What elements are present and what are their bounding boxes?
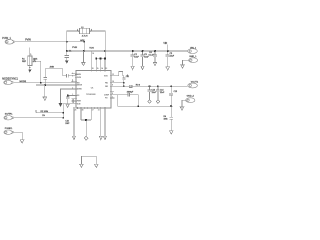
ground arrow left of net tie: [80, 164, 84, 167]
IC pin ticks left: [75, 73, 77, 104]
svg-text:C15: C15: [174, 91, 177, 93]
wire C12 left: [118, 94, 128, 96]
node PGND pair: [85, 119, 87, 121]
wire x63.3 riser: [62, 104, 64, 118]
svg-text:21: 21: [75, 110, 77, 112]
IC pin ticks top: [91, 70, 105, 72]
connector J5: [188, 49, 198, 54]
svg-text:PGND1: PGND1: [5, 128, 13, 130]
ground under C4: [153, 62, 156, 65]
wire PGND pair: [81, 108, 91, 120]
tick hop: [127, 75, 129, 77]
wire R1 tap to EN: [32, 61, 41, 82]
svg-text:MODE/SYNC1: MODE/SYNC1: [2, 78, 18, 81]
node FB1: [123, 82, 125, 84]
IC U1: [76, 71, 111, 109]
capacitor C3: [141, 51, 145, 66]
ground under C9: [66, 104, 69, 107]
wire VOS pin to bus: [90, 51, 92, 71]
svg-text:VOS: VOS: [89, 47, 94, 49]
node SS: [44, 84, 46, 86]
svg-text:AVIN: AVIN: [77, 73, 82, 76]
connector J3: [4, 116, 14, 120]
capacitor C9: [66, 96, 70, 105]
ground under J4: [20, 140, 24, 143]
wire pin y101 stub: [72, 100, 77, 102]
svg-text:R2 100k: R2 100k: [41, 111, 48, 113]
svg-text:MODE: MODE: [77, 85, 83, 87]
connector J2: [4, 80, 14, 84]
wire PGND pair down: [85, 120, 87, 136]
capacitor C1: [65, 51, 70, 60]
ground under x100.8: [99, 136, 102, 139]
wire pin AGND to ground: [61, 89, 77, 103]
svg-text:5: 5: [72, 73, 73, 75]
capacitor C7 on SS riser: [44, 78, 47, 86]
svg-text:22uF: 22uF: [170, 55, 175, 57]
svg-text:3: 3: [72, 81, 73, 83]
svg-text:0.1uF: 0.1uF: [149, 55, 155, 57]
svg-text:16: 16: [92, 53, 94, 55]
svg-text:COMP: COMP: [104, 94, 110, 96]
pad SW1: [95, 58, 97, 60]
wire SS to ground: [44, 85, 46, 97]
node FB junction: [170, 105, 172, 107]
svg-text:PVIN: PVIN: [77, 77, 82, 79]
ground arrow right of net tie: [95, 164, 99, 167]
svg-text:GND_1: GND_1: [189, 56, 197, 58]
ground under x86.1: [84, 136, 88, 140]
capacitor C15 feedforward: [169, 86, 173, 106]
wire C8 to IC: [68, 75, 76, 77]
wire J8 to ground: [182, 100, 187, 107]
svg-text:SS: SS: [77, 95, 80, 97]
svg-text:13: 13: [105, 68, 107, 70]
node VOUT feedback: [170, 85, 172, 87]
capacitor C12 series: [128, 93, 130, 97]
wire bus VIN: [67, 50, 188, 52]
ground under R4: [169, 131, 173, 134]
wire VOUT line: [111, 85, 187, 87]
node bus C3: [142, 50, 144, 52]
wire pin stub right y91.2: [111, 90, 114, 92]
svg-text:FB1: FB1: [105, 82, 108, 84]
pin names right: [104, 75, 110, 99]
ground under C13: [148, 100, 151, 104]
svg-text:VIN: VIN: [163, 43, 167, 45]
svg-text:16: 16: [82, 110, 84, 112]
wire PGND1 down: [73, 108, 75, 136]
wire SS bridge: [45, 69, 62, 78]
capacitor C8 series: [67, 74, 69, 78]
connector J6: [189, 58, 198, 63]
net stub VIN flag: [167, 44, 169, 51]
IC pin ticks bottom: [74, 107, 105, 109]
wire pin stub y98.8: [72, 98, 77, 100]
capacitor C11: [122, 76, 125, 83]
pin numbers right: [112, 74, 114, 98]
wire VIN up to L1: [67, 31, 80, 51]
svg-text:REF: REF: [22, 61, 27, 63]
ground under x105: [103, 136, 106, 139]
node x138.2: [137, 105, 139, 107]
node SW rail junction: [104, 50, 106, 52]
svg-text:100k: 100k: [164, 118, 168, 120]
capacitor C2: [131, 51, 135, 66]
svg-text:1: 1: [77, 29, 78, 31]
svg-text:2: 2: [72, 87, 73, 89]
svg-text:19: 19: [72, 102, 74, 104]
capacitor C4: [153, 51, 157, 62]
wire COMP riser: [117, 95, 119, 107]
resistor R1: [28, 48, 32, 70]
wire L1 to SW: [90, 31, 106, 59]
svg-text:MODE: MODE: [20, 81, 27, 83]
svg-text:10uF: 10uF: [144, 57, 149, 59]
capacitor C14: [156, 86, 160, 99]
wire J4 to ground: [14, 132, 22, 139]
svg-text:ILIM: ILIM: [77, 103, 81, 105]
ground under x83.4: [82, 62, 86, 65]
svg-text:14: 14: [101, 68, 103, 70]
capacitor C5 polarized: [166, 51, 170, 67]
svg-text:VOS: VOS: [104, 75, 108, 77]
wire COMP bottom line: [118, 105, 172, 107]
inductor L1: [78, 28, 90, 34]
svg-text:1%: 1%: [42, 115, 45, 117]
node VOUT C13: [149, 85, 151, 87]
svg-text:2: 2: [34, 60, 35, 62]
wire EN/MODE line: [13, 82, 76, 84]
connector J4: [4, 130, 14, 134]
wire C12 right: [130, 95, 139, 107]
wire pin stub y73.1: [72, 72, 77, 74]
wire SW pins row: [96, 59, 105, 71]
connector J7: [188, 83, 198, 88]
svg-text:SS/TR1: SS/TR1: [5, 113, 13, 115]
svg-text:6: 6: [72, 76, 73, 78]
wire pin y95.5: [68, 95, 76, 97]
svg-text:10uF: 10uF: [134, 57, 139, 59]
svg-text:22uF: 22uF: [152, 92, 157, 94]
wire FB1: [111, 82, 124, 84]
wire COMP: [111, 94, 118, 96]
resistor R3 series: [129, 85, 132, 87]
connector J1: [5, 40, 15, 45]
svg-text:AGND: AGND: [77, 88, 83, 91]
svg-text:GND_2: GND_2: [187, 95, 195, 97]
node AVIN dot: [83, 41, 85, 43]
wire J3 line: [14, 117, 64, 119]
wire pin stub y81.2: [71, 80, 76, 82]
wire stub to PGND arrow: [82, 51, 84, 62]
svg-text:TPS61088: TPS61088: [86, 94, 96, 96]
svg-text:17: 17: [92, 110, 94, 112]
node bus C5: [167, 50, 169, 52]
ground under x60.5: [59, 103, 63, 107]
wire SS line: [36, 84, 76, 86]
wire bottom net tie: [81, 156, 96, 164]
ground under C5: [166, 67, 170, 70]
pin numbers bottom: [75, 110, 100, 112]
svg-text:PVIN: PVIN: [72, 47, 77, 49]
node VOUT C14: [157, 85, 159, 87]
node x63.3 y112.6: [63, 112, 65, 114]
svg-text:PVIN: PVIN: [25, 39, 31, 42]
wire FB resistor line: [36, 110, 63, 113]
ground under x74: [72, 136, 75, 139]
svg-text:C11: C11: [126, 76, 129, 78]
wire VOS hop: [111, 72, 124, 76]
pin numbers top: [92, 68, 107, 70]
ground under J8: [180, 107, 184, 110]
ground under C1: [65, 60, 69, 63]
node y95.5: [67, 95, 69, 97]
capacitor C13: [148, 86, 152, 99]
ground under SS: [43, 97, 47, 100]
svg-text:22uF: 22uF: [160, 92, 165, 94]
node bus-C1: [66, 50, 68, 52]
node VIN/C1 junction: [66, 41, 68, 43]
svg-text:15: 15: [97, 68, 99, 70]
wire AVIN filter line: [63, 75, 67, 77]
node bus C4: [154, 50, 156, 52]
wire PGND right down: [101, 108, 105, 136]
svg-text:1: 1: [72, 94, 73, 96]
wire AVIN down: [83, 42, 85, 51]
svg-text:18: 18: [92, 68, 94, 70]
pin numbers left: [72, 73, 74, 104]
svg-text:11: 11: [98, 110, 100, 112]
node bus x83.5: [83, 50, 85, 52]
wire PG stub: [111, 97, 115, 99]
IC pin ticks right: [110, 76, 112, 98]
ground under C14: [156, 100, 159, 104]
wire pin y103.6: [63, 103, 76, 105]
node x63.3 y117.6: [63, 117, 65, 119]
ground under R1: [28, 69, 31, 72]
node FB2: [123, 86, 125, 88]
ground under C2: [131, 66, 134, 69]
svg-text:20: 20: [72, 99, 74, 101]
ground under C3: [141, 66, 144, 69]
svg-text:PVIN_1: PVIN_1: [2, 37, 11, 40]
resistor R4: [169, 106, 173, 131]
svg-text:FB2: FB2: [105, 86, 108, 88]
wire FB link: [123, 83, 125, 87]
wire VIN rail: [15, 41, 85, 43]
pad SW2: [100, 58, 102, 60]
svg-text:U1: U1: [91, 87, 95, 89]
node bus C2: [132, 50, 134, 52]
node EN tap: [40, 82, 42, 84]
svg-text:3300pF: 3300pF: [127, 92, 134, 94]
svg-text:1: 1: [30, 54, 31, 56]
svg-text:VOUT1: VOUT1: [191, 81, 199, 83]
ground under J6: [181, 65, 185, 68]
pad SW3: [104, 58, 106, 60]
wire J6 to ground: [183, 60, 190, 65]
svg-text:DNP: DNP: [65, 123, 70, 125]
connector J8: [186, 98, 195, 103]
svg-text:AVIN: AVIN: [50, 65, 55, 68]
pin names left: [77, 73, 83, 105]
svg-text:4.7uH: 4.7uH: [82, 36, 88, 38]
svg-text:PG: PG: [105, 98, 108, 100]
svg-text:VIN_1: VIN_1: [190, 47, 197, 49]
